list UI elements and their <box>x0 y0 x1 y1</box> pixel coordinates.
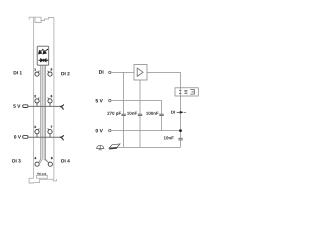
value label 100nF <box>146 112 158 115</box>
capacitor C2 10nF <box>138 114 142 115</box>
label DI data arrow <box>171 111 175 114</box>
internal bus wires <box>39 65 41 162</box>
label 0 V left <box>14 135 21 138</box>
pin 8 <box>51 157 52 159</box>
LED symbol bottom pair <box>39 59 49 62</box>
top latch slot <box>35 17 41 22</box>
clamp terminal 2 <box>35 97 39 106</box>
label DI 1 <box>14 71 22 74</box>
0V female fork contact <box>60 135 64 140</box>
label DI <box>99 70 103 73</box>
0V male jumper contact <box>23 136 28 139</box>
glyph hourglass <box>179 90 181 94</box>
pin 2 <box>34 95 35 97</box>
DI terminal <box>109 71 111 73</box>
glyph bars <box>184 90 187 93</box>
label 5 V left <box>13 104 20 107</box>
glyph bracket <box>190 90 194 95</box>
value label 10nF (C4) <box>164 136 174 139</box>
5V jumper line <box>28 105 60 107</box>
5V female fork contact <box>60 104 64 109</box>
label 5 V <box>96 99 103 102</box>
wire 5V rail <box>111 101 162 114</box>
earth line <box>117 146 181 148</box>
label DI 3 <box>12 159 20 162</box>
clamp terminal 7 <box>48 128 52 137</box>
functional earth symbol <box>96 145 104 149</box>
module body left edge <box>33 17 35 178</box>
LED symbol top-right <box>43 49 48 54</box>
wire amp lower branch 2 <box>139 116 141 148</box>
top latch profile <box>29 17 54 20</box>
data arrow <box>177 111 180 113</box>
capacitor C4 10nF <box>178 138 182 140</box>
0V jumper line <box>28 136 60 138</box>
op-amp U1 <box>134 65 147 81</box>
LED symbol top-left <box>39 49 44 54</box>
pin 7 <box>51 126 52 128</box>
pin 1 <box>34 68 35 70</box>
5V male jumper contact <box>23 105 28 108</box>
isolation symbol box <box>175 88 198 96</box>
wire amp lower branch <box>139 80 141 114</box>
data arrow tip dash <box>184 111 185 113</box>
wire right vertical <box>180 72 182 138</box>
clamp terminal 4 <box>35 162 39 166</box>
wire 270pF branch lower <box>123 116 125 148</box>
module body right edge <box>53 18 55 180</box>
wire 100nF lower <box>161 116 163 131</box>
bottom rail foot profile <box>29 178 56 183</box>
marking field box <box>36 175 47 178</box>
LED indicator box <box>37 46 49 65</box>
pin 4 <box>35 157 37 159</box>
clamp terminal 8 <box>48 162 52 166</box>
clamp terminal 3 <box>35 128 39 137</box>
label 0 V <box>96 129 103 133</box>
clamp terminal 5 <box>48 71 52 77</box>
clamp terminal 6 <box>48 97 52 106</box>
pin 6 <box>51 95 52 97</box>
wire right vertical lower <box>180 140 182 147</box>
wire 0V rail <box>111 130 181 132</box>
capacitor C1 270 pF <box>121 114 125 115</box>
clamp terminal 1 <box>35 71 39 77</box>
capacitor C3 100nF <box>159 114 163 115</box>
label DI 4 <box>61 159 69 162</box>
wire amp output <box>147 71 181 73</box>
part number 750-414 <box>37 173 47 175</box>
label DI 2 <box>61 72 69 75</box>
0V terminal <box>109 129 111 131</box>
5V terminal <box>109 99 111 101</box>
value label 270 pF <box>107 112 121 116</box>
pin 3 <box>34 126 35 128</box>
pin 5 <box>51 68 52 70</box>
junction 0V / right vertical <box>179 129 182 132</box>
value label 10nF (C2) <box>127 112 137 115</box>
carrier rail symbol <box>109 144 120 150</box>
wire DI input <box>111 71 134 73</box>
wire 270pF branch upper <box>123 72 125 114</box>
